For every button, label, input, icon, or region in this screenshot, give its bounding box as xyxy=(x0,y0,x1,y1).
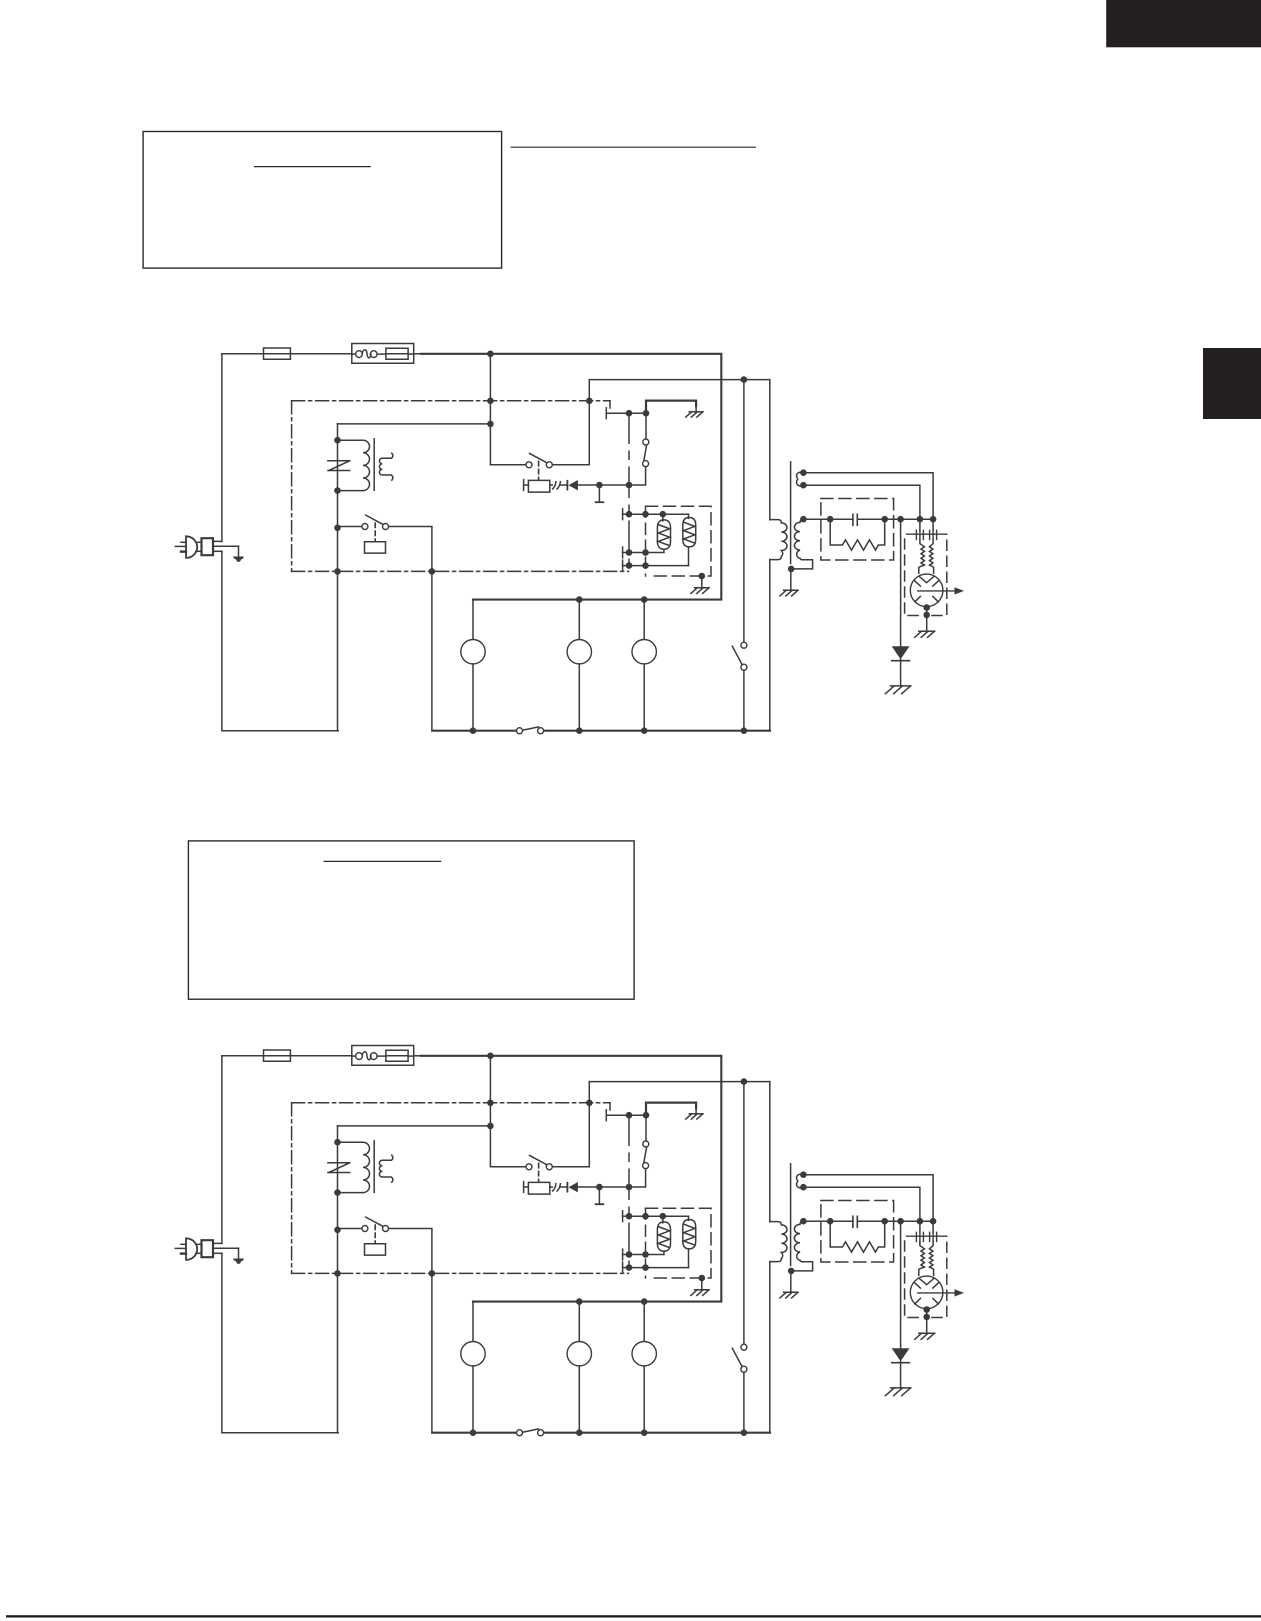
node J5 (lower diagram) xyxy=(334,1189,341,1196)
ground G3 (lower diagram) xyxy=(780,1271,798,1298)
heater element H1 xyxy=(657,514,670,552)
HV diode D2 xyxy=(892,646,910,661)
turntable motor TM lead (lower diagram) xyxy=(578,1302,580,1342)
heater row1 wire (lower diagram) xyxy=(629,1215,689,1217)
ground G5 (lower diagram) xyxy=(885,1361,910,1395)
terminal TB1 xyxy=(623,509,627,520)
node J18 xyxy=(641,727,648,734)
HV transformer T2 core xyxy=(790,462,792,564)
terminal TB1 (lower diagram) xyxy=(623,1211,627,1222)
relay RY2 coil (lower diagram) xyxy=(365,1244,386,1255)
thermal cutout TCO1 box xyxy=(352,344,414,364)
ground G3 xyxy=(780,569,798,596)
node J17 xyxy=(576,727,583,734)
wire x490 drop (lower diagram) xyxy=(490,1056,525,1167)
pin P5 xyxy=(626,410,633,417)
oven lamp OL lower lead xyxy=(643,664,645,731)
node J9 (lower diagram) xyxy=(642,1213,649,1220)
heater element H1 (lower diagram) xyxy=(657,1216,670,1254)
footer rule xyxy=(6,1615,1261,1617)
terminal TA2 xyxy=(524,480,529,491)
monitor switch SW2 blade (lower diagram) xyxy=(732,1348,741,1366)
pin P5 (lower diagram) xyxy=(626,1112,633,1119)
relay RY1 blade xyxy=(644,445,647,460)
power plug PL1 xyxy=(175,536,238,558)
monitor switch SW2 drop (lower diagram) xyxy=(743,1082,745,1344)
bottom supply wire (lower diagram) xyxy=(432,1432,770,1434)
notes box 1 title underline xyxy=(254,166,371,168)
ground G4 (lower diagram) xyxy=(915,1317,935,1339)
ground G1 (lower diagram) xyxy=(686,1108,703,1119)
node J11 xyxy=(642,549,649,556)
relay RY2 blade xyxy=(366,515,383,524)
node J12 xyxy=(642,562,649,569)
fan motor FM (lower diagram) xyxy=(461,1342,485,1366)
monitor switch SW2 lower wire (lower diagram) xyxy=(743,1372,745,1432)
wire P6 to J8 (lower diagram) xyxy=(603,1186,627,1188)
heater element H2 xyxy=(683,514,696,565)
flame fuse F2 inner box (lower diagram) xyxy=(377,1050,414,1061)
monitor switch SW2 contacts (lower diagram) xyxy=(741,1344,747,1372)
node J14 xyxy=(576,596,583,603)
wire neutral left drop xyxy=(221,354,223,542)
node J10 xyxy=(660,511,667,518)
door sensing switch SW1 contacts (lower diagram) xyxy=(526,1164,552,1170)
node J19 xyxy=(741,727,748,734)
HV diode D2 lead (lower diagram) xyxy=(900,1221,902,1348)
test terminal stub (lower diagram) xyxy=(596,1187,604,1204)
ground G2 xyxy=(691,576,709,593)
node J27 fil line a xyxy=(917,516,924,523)
node J5 xyxy=(334,487,341,494)
relay RY1 contact upper (lower diagram) xyxy=(643,1115,649,1147)
node J2 monitor feed xyxy=(741,376,748,383)
relay RY2 contacts xyxy=(362,524,389,530)
door sensing switch SW1 contacts xyxy=(526,462,552,468)
schematic 1 title rule xyxy=(511,146,757,148)
magnetron cathode chevron xyxy=(919,577,933,583)
relay RY1 contact lower (lower diagram) xyxy=(632,1163,649,1187)
transformer T1 secondary xyxy=(379,453,393,480)
RF choke coils xyxy=(921,547,933,565)
relay RY1 coil (lower diagram) xyxy=(528,1182,549,1194)
node J16 xyxy=(470,727,477,734)
monitor switch SW2 lower wire xyxy=(743,670,745,730)
node J4 xyxy=(334,437,341,444)
node J12 (lower diagram) xyxy=(642,1264,649,1271)
wire L1 to inner frame xyxy=(414,353,421,355)
wire fuse to thermal cutout xyxy=(290,353,351,355)
switch SW1 linkage xyxy=(538,461,540,480)
node J26 diode tap (lower diagram) xyxy=(897,1218,904,1225)
heater unit dashed box xyxy=(646,506,712,576)
diode D1 xyxy=(561,480,578,490)
wire L1 to inner frame (lower diagram) xyxy=(414,1055,421,1057)
feedthrough capacitors FC xyxy=(907,530,947,539)
test terminal stub xyxy=(596,485,604,502)
power plug PL1 (lower diagram) xyxy=(175,1238,238,1260)
magnetron cathode chevron (lower diagram) xyxy=(919,1279,933,1285)
wire to relay RY2 xyxy=(338,526,362,528)
T2 filament winding (lower diagram) xyxy=(797,1174,804,1188)
HV transformer T2 core (lower diagram) xyxy=(790,1164,792,1266)
fan motor FM xyxy=(461,640,485,664)
side index black tab xyxy=(1203,348,1261,419)
wire P6 to J8 xyxy=(603,484,627,486)
ground G1 xyxy=(686,406,703,417)
door switch SW3 contacts xyxy=(517,728,544,734)
wire J8 to diode D1 (lower diagram) xyxy=(578,1186,599,1188)
turntable motor TM lower lead xyxy=(578,664,580,731)
pin P3 on boundary xyxy=(334,568,341,575)
T2 filament winding xyxy=(797,472,804,486)
pin P2 on boundary (lower diagram) xyxy=(586,1100,593,1107)
node J13 heater ground xyxy=(699,573,706,580)
node J9 xyxy=(642,511,649,518)
RF choke funnel xyxy=(919,540,934,574)
node J10 (lower diagram) xyxy=(660,1213,667,1220)
wire P5 to RY1 xyxy=(629,412,646,414)
filament wire b xyxy=(803,473,933,531)
surge absorber Z1 xyxy=(328,461,350,471)
bleeder resistor R1 loop xyxy=(830,519,885,550)
pin P8 (lower diagram) xyxy=(626,1251,633,1258)
wire RY2 to drop x432 (lower diagram) xyxy=(389,1229,432,1274)
pin P1 on boundary xyxy=(487,398,494,405)
transformer T1 core (lower diagram) xyxy=(373,1141,375,1193)
pin P2 on boundary xyxy=(586,398,593,405)
wire oven relay feed (y380) xyxy=(589,379,770,381)
node J3 LVT top xyxy=(487,421,494,428)
HV transformer T2 primary riser xyxy=(769,380,771,731)
relay RY1 coil xyxy=(528,480,549,492)
door sensing switch SW1 blade xyxy=(530,453,547,462)
chassis bracket to ground G1 (lower diagram) xyxy=(646,1103,696,1116)
HV capacitor C1 plates xyxy=(853,514,857,525)
T2 secondary (lower diagram) xyxy=(794,1221,812,1271)
diode D1 (lower diagram) xyxy=(561,1182,578,1192)
terminal TA1 xyxy=(606,408,625,419)
node J15 xyxy=(641,596,648,603)
feedthrough capacitors FC (lower diagram) xyxy=(907,1232,947,1241)
HV transformer T2 primary xyxy=(770,520,787,560)
pin P4 on boundary xyxy=(429,568,436,575)
relay RY2 blade (lower diagram) xyxy=(366,1217,383,1226)
HV line wire (lower diagram) xyxy=(803,1220,933,1222)
notes box 2 title underline xyxy=(324,860,442,862)
monitor switch SW2 drop xyxy=(743,380,745,642)
flame fuse F2 inner box xyxy=(377,348,414,359)
terminal TA1 (lower diagram) xyxy=(606,1110,625,1121)
HV transformer T2 primary riser (lower diagram) xyxy=(769,1082,771,1433)
relay RY1 contact lower xyxy=(632,461,649,485)
node J30 (lower diagram) xyxy=(923,1310,930,1321)
wire drop x432 to lamp line (lower diagram) xyxy=(431,1273,433,1432)
node J13 heater ground (lower diagram) xyxy=(699,1275,706,1282)
plug earth stud xyxy=(233,546,244,561)
filament wire a xyxy=(803,485,920,530)
node J16 (lower diagram) xyxy=(470,1429,477,1436)
oven lamp OL lower lead (lower diagram) xyxy=(643,1366,645,1433)
node J26 diode tap xyxy=(897,516,904,523)
wire L1 hot: plug to fuse (lower diagram) xyxy=(222,1055,264,1057)
terminal TA2 (lower diagram) xyxy=(524,1182,529,1193)
node J1 on L1 (lower diagram) xyxy=(487,1053,494,1060)
node J29 anode xyxy=(923,604,930,611)
wire neutral to bottom left xyxy=(222,551,338,731)
door switch SW3 blade xyxy=(523,727,538,730)
fuse F1 (lower diagram) xyxy=(264,1050,291,1061)
pin P4 on boundary (lower diagram) xyxy=(429,1270,436,1277)
node J23 HV line tap xyxy=(800,516,807,523)
node J8 test terminal xyxy=(596,482,603,489)
terminal TB3 xyxy=(623,560,627,571)
magnetron V1 envelope (lower diagram) xyxy=(910,1276,943,1309)
wire LVT riser x337 xyxy=(338,424,491,731)
node J24 (lower diagram) xyxy=(827,1218,834,1225)
magnetron output arrow (lower diagram) xyxy=(918,1289,964,1296)
heater row2 wire xyxy=(629,552,664,554)
surge absorber Z1 (lower diagram) xyxy=(328,1163,350,1173)
thermal cutout sensing wave xyxy=(362,350,371,358)
monitor switch SW2 contacts xyxy=(741,642,747,670)
wire oven relay feed (y380) (lower diagram) xyxy=(589,1081,770,1083)
filament wire b (lower diagram) xyxy=(803,1175,933,1233)
relay RY2 linkage xyxy=(374,523,376,541)
ground G4 xyxy=(915,615,935,637)
wire drop x432 to lamp line xyxy=(431,571,433,730)
node J19 (lower diagram) xyxy=(741,1429,748,1436)
terminal TB2 (lower diagram) xyxy=(623,1249,627,1260)
wire fuse to thermal cutout (lower diagram) xyxy=(290,1055,351,1057)
wire LVT riser x337 (lower diagram) xyxy=(338,1126,491,1433)
capacitor unit dashed box (lower diagram) xyxy=(821,1201,894,1263)
wire heavy inner frame (top/right/bottom) xyxy=(421,354,721,600)
pin P1 on boundary (lower diagram) xyxy=(487,1100,494,1107)
door switch SW3 blade (lower diagram) xyxy=(523,1429,538,1432)
node J22 secondary ground node (lower diagram) xyxy=(788,1268,795,1275)
wire x490 drop xyxy=(490,354,525,465)
low voltage transformer T1 primary xyxy=(338,440,370,490)
bleeder resistor R1 loop (lower diagram) xyxy=(830,1221,885,1252)
pin P9 xyxy=(626,562,633,569)
fuse F1 xyxy=(264,348,291,359)
magnetron anode ticks (lower diagram) xyxy=(915,1283,939,1304)
magnetron V1 envelope xyxy=(910,574,943,607)
fan motor FM lead (lower diagram) xyxy=(472,1302,474,1342)
node J27 fil line a (lower diagram) xyxy=(917,1218,924,1225)
heater row3 wire (lower diagram) xyxy=(629,1267,689,1269)
oven lamp OL lead (lower diagram) xyxy=(643,1302,645,1342)
HV line wire xyxy=(803,518,933,520)
fan motor FM lead xyxy=(472,600,474,640)
node J18 (lower diagram) xyxy=(641,1429,648,1436)
relay RY2 linkage (lower diagram) xyxy=(374,1225,376,1243)
turntable motor TM lower lead (lower diagram) xyxy=(578,1366,580,1433)
heater row3 wire xyxy=(629,565,689,567)
door sensing switch SW1 blade (lower diagram) xyxy=(530,1155,547,1164)
switch SW1 linkage (lower diagram) xyxy=(538,1163,540,1182)
node J20 fil a (lower diagram) xyxy=(800,1171,807,1178)
oven lamp OL (lower diagram) xyxy=(632,1342,656,1366)
HV diode D2 lead xyxy=(900,519,902,646)
wire SW1 to riser x589 xyxy=(553,380,590,465)
wire neutral to bottom left (lower diagram) xyxy=(222,1253,338,1433)
low voltage transformer T1 primary (lower diagram) xyxy=(338,1142,370,1192)
thermal cutout sensing wave (lower diagram) xyxy=(362,1052,371,1060)
node J14 (lower diagram) xyxy=(576,1298,583,1305)
pin P7 xyxy=(626,511,633,518)
oven lamp OL lead xyxy=(643,600,645,640)
node J23 HV line tap (lower diagram) xyxy=(800,1218,807,1225)
ground G2 (lower diagram) xyxy=(691,1278,709,1295)
ground G5 xyxy=(885,659,910,693)
node J15 (lower diagram) xyxy=(641,1298,648,1305)
node J7 (lower diagram) xyxy=(643,1112,650,1119)
node J7 xyxy=(643,410,650,417)
header black block xyxy=(1106,0,1261,47)
node J20 fil a xyxy=(800,469,807,476)
HV diode D2 (lower diagram) xyxy=(892,1348,910,1363)
magnetron output arrow xyxy=(918,587,964,594)
node J6 relay RY2 feed xyxy=(334,525,341,532)
RF choke coils (lower diagram) xyxy=(921,1249,933,1267)
turntable motor TM lead xyxy=(578,600,580,640)
terminal TB2 xyxy=(623,547,627,558)
node J30 xyxy=(923,608,930,619)
control unit boundary (dash-dot box) xyxy=(292,401,629,572)
oven lamp OL xyxy=(632,640,656,664)
node J1 on L1 xyxy=(487,351,494,358)
heater row1 wire xyxy=(629,513,689,515)
relay RY1 blade (lower diagram) xyxy=(644,1147,647,1162)
node J8 test terminal (lower diagram) xyxy=(596,1184,603,1191)
node J29 anode (lower diagram) xyxy=(923,1306,930,1313)
node J21 fil b xyxy=(800,482,807,489)
control unit boundary (dash-dot box) (lower diagram) xyxy=(292,1103,629,1274)
turntable motor TM (lower diagram) xyxy=(567,1342,591,1366)
HV capacitor C1 plates (lower diagram) xyxy=(853,1216,857,1227)
wire RY2 to drop x432 xyxy=(389,527,432,572)
relay RY2 contacts (lower diagram) xyxy=(362,1226,389,1232)
notes box 1 xyxy=(143,132,502,269)
connector CN1 xyxy=(550,482,561,489)
T2 secondary xyxy=(794,519,812,569)
terminal TB3 (lower diagram) xyxy=(623,1262,627,1273)
wire to relay RY2 (lower diagram) xyxy=(338,1228,362,1230)
monitor switch SW2 blade xyxy=(732,646,741,664)
thermal cutout contact circles xyxy=(352,351,377,358)
wire P5 to RY1 (lower diagram) xyxy=(629,1114,646,1116)
node J25 (lower diagram) xyxy=(881,1218,888,1225)
relay RY2 coil xyxy=(365,542,386,553)
notes box 2 xyxy=(188,841,634,999)
door switch SW3 contacts (lower diagram) xyxy=(517,1430,544,1436)
node J25 xyxy=(881,516,888,523)
wire L1 hot: plug to fuse xyxy=(222,353,264,355)
node J17 (lower diagram) xyxy=(576,1429,583,1436)
thermal cutout TCO1 box (lower diagram) xyxy=(352,1046,414,1066)
node J28 fil line b (lower diagram) xyxy=(930,1218,937,1225)
transformer T1 core xyxy=(373,439,375,491)
pin P6 (lower diagram) xyxy=(626,1184,633,1191)
chassis bracket to ground G1 xyxy=(646,401,696,414)
plug earth stud (lower diagram) xyxy=(233,1248,244,1264)
fan motor FM lower lead (lower diagram) xyxy=(472,1366,474,1433)
node J21 fil b (lower diagram) xyxy=(800,1184,807,1191)
pin P6 xyxy=(626,482,633,489)
wire heavy inner frame (top/right/bottom) (lower diagram) xyxy=(421,1056,721,1302)
node J6 relay RY2 feed (lower diagram) xyxy=(334,1227,341,1234)
turntable motor TM xyxy=(567,640,591,664)
heater unit dashed box (lower diagram) xyxy=(646,1208,712,1278)
pin P9 (lower diagram) xyxy=(626,1264,633,1271)
pin P3 on boundary (lower diagram) xyxy=(334,1270,341,1277)
node J4 (lower diagram) xyxy=(334,1139,341,1146)
fan motor FM lower lead xyxy=(472,664,474,731)
node J2 monitor feed (lower diagram) xyxy=(741,1078,748,1085)
pin P7 (lower diagram) xyxy=(626,1213,633,1220)
thermal cutout contact circles (lower diagram) xyxy=(352,1053,377,1060)
bottom supply wire xyxy=(432,730,770,732)
magnetron anode ticks xyxy=(915,581,939,602)
node J11 (lower diagram) xyxy=(642,1251,649,1258)
relay RY1 contact upper xyxy=(643,413,649,445)
node J3 LVT top (lower diagram) xyxy=(487,1123,494,1130)
wire SW1 to riser x589 (lower diagram) xyxy=(553,1082,590,1167)
filament wire a (lower diagram) xyxy=(803,1187,920,1232)
pin P8 xyxy=(626,549,633,556)
wire J8 to diode D1 xyxy=(578,484,599,486)
magnetron dashed box (lower diagram) xyxy=(905,1241,947,1318)
heater row2 wire (lower diagram) xyxy=(629,1254,664,1256)
magnetron dashed box xyxy=(905,539,947,616)
RF choke funnel (lower diagram) xyxy=(919,1242,934,1276)
HV transformer T2 primary (lower diagram) xyxy=(770,1222,787,1262)
connector CN1 (lower diagram) xyxy=(550,1184,561,1191)
capacitor unit dashed box xyxy=(821,499,894,561)
transformer T1 secondary (lower diagram) xyxy=(379,1155,393,1182)
node J22 secondary ground node xyxy=(788,566,795,573)
node J28 fil line b xyxy=(930,516,937,523)
wire neutral left drop (lower diagram) xyxy=(221,1056,223,1244)
node J24 xyxy=(827,516,834,523)
heater element H2 (lower diagram) xyxy=(683,1216,696,1267)
